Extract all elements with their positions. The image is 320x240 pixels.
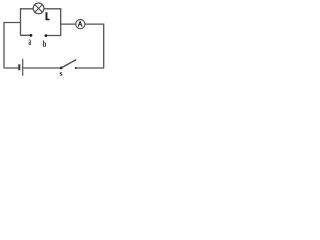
wire: ammeter branch right segment to right vertical	[85, 23, 104, 25]
svg-text:s: s	[60, 69, 63, 78]
wire: right vertical down to bottom wire	[76, 24, 104, 68]
lamp L (circle with X)	[33, 3, 44, 14]
node a (terminal dot)	[30, 34, 33, 37]
ammeter A	[76, 20, 85, 29]
wire: far-left vertical down to battery	[4, 23, 18, 69]
wire: jog from inner-left vertical to far-left vertical	[4, 22, 21, 24]
svg-text:a: a	[28, 35, 31, 48]
label L	[46, 12, 50, 20]
wire: bottom wire from battery to switch pivot	[24, 67, 62, 69]
wire: inner-left vertical down to terminal a	[21, 9, 31, 36]
wire: mid vertical from top wire down to terminal b wire	[47, 9, 61, 36]
battery (cell): short thick negative plate	[18, 64, 20, 70]
wire: top wire from left junction to mid vertical	[21, 8, 61, 10]
wire: ammeter branch left segment	[61, 23, 76, 25]
switch s: lever arm	[61, 60, 76, 68]
switch s: right terminal dot	[75, 67, 77, 69]
background	[0, 0, 115, 80]
battery (cell): long thin positive plate	[22, 59, 24, 76]
svg-text:b: b	[43, 39, 47, 49]
switch s: pivot dot	[60, 67, 63, 70]
node b (terminal dot)	[45, 34, 48, 37]
